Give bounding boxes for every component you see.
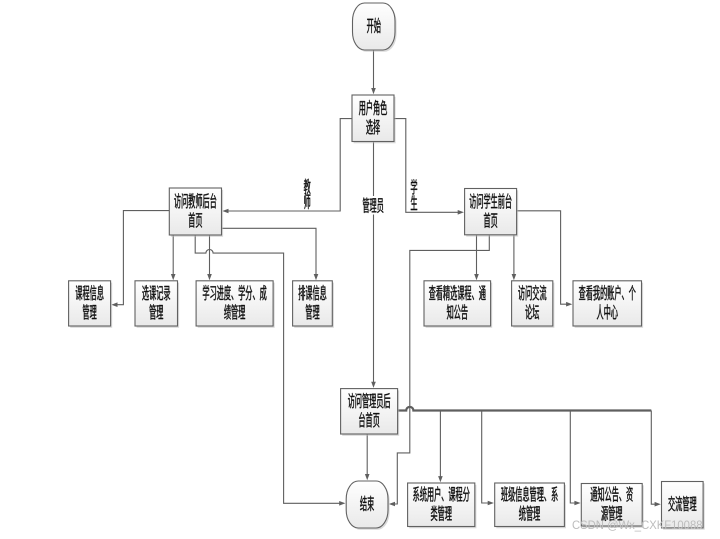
wire E15a trunk -> system users mgmt: [438, 411, 443, 483]
wire E13 student -> my account: [517, 211, 573, 307]
node 开始 (start terminator): [353, 3, 397, 52]
node 系统用户、课程分类管理: [408, 483, 477, 528]
node 访问学生前台首页 (student front home): [465, 189, 519, 237]
node 访问交流论坛: [512, 281, 555, 328]
wire E11 student -> end: [389, 235, 490, 507]
edge label 管理员 (admin): [359, 196, 389, 215]
edge label 教师 (teacher): [304, 179, 311, 209]
edge label 学生 (student): [411, 179, 417, 210]
wire E4 role-select -> admin home (label 管理员): [371, 142, 376, 388]
wire E15 admin output trunk: [398, 407, 652, 411]
node 选课记录管理: [135, 281, 179, 328]
wire E1 start -> role-select: [371, 51, 376, 95]
node 课程信息管理: [69, 281, 113, 328]
wire E2 role-select -> teacher home (label 教师): [222, 119, 352, 214]
wire E15b trunk -> class info mgmt: [482, 411, 494, 506]
node 查看精选课程、通知公告: [424, 281, 492, 328]
wire E6 teacher -> end: [195, 235, 345, 506]
wire E9 teacher -> course info mgmt: [111, 211, 169, 307]
wire E3 role-select -> student home (label 学生): [394, 119, 464, 215]
wire E12 student -> forum: [512, 235, 517, 280]
node 查看我的账户、个人中心: [573, 281, 643, 328]
wire E5 teacher -> course-record mgmt: [171, 235, 176, 280]
svg-text:CSDN @Wx_CXKF10088: CSDN @Wx_CXKF10088: [572, 520, 703, 532]
node 访问教师后台首页 (teacher backend home): [169, 188, 223, 237]
wire E7 teacher -> progress mgmt: [207, 235, 212, 280]
node 班级信息管理、系统管理: [495, 483, 566, 528]
wire E14 admin -> end: [365, 434, 370, 480]
node 交流管理: [662, 482, 705, 530]
wire E15c trunk -> notices/resources mgmt: [570, 411, 580, 506]
node 用户角色选择 (role select): [352, 95, 396, 143]
wire E10 student -> featured courses/notices: [474, 235, 479, 280]
wire E8 teacher -> scheduling info mgmt: [222, 228, 319, 280]
node 结束 (end terminator): [346, 481, 389, 530]
node 学习进度、学分、成绩管理: [196, 281, 275, 328]
wire E15d trunk -> communication mgmt: [651, 411, 661, 507]
node 访问管理员后台首页 (admin backend home): [341, 389, 400, 436]
node 通知公告、资源管理: [581, 484, 644, 528]
node 排课信息管理: [293, 281, 334, 328]
